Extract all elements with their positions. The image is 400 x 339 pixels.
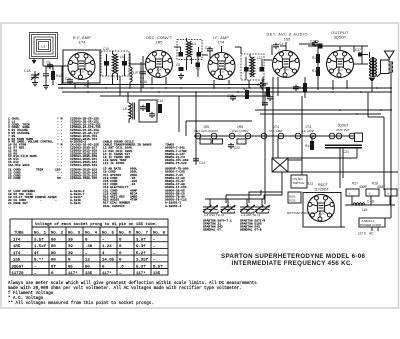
- svg-text:GENERAL GT-B: GENERAL GT-B: [240, 229, 262, 232]
- svg-text:1T4: 1T4: [13, 252, 21, 256]
- svg-text:No. 7: No. 7: [136, 232, 149, 236]
- svg-text:40MF: 40MF: [359, 185, 367, 189]
- svg-text:.38: .38: [85, 245, 93, 249]
- svg-text:80: 80: [51, 252, 56, 256]
- svg-text:A-18051-4: A-18051-4: [165, 205, 181, 208]
- svg-text:C25603-7600-766: C25603-7600-766: [70, 177, 97, 180]
- svg-text:made with 20,000 ohms per volt: made with 20,000 ohms per volt voltmeter…: [8, 286, 242, 291]
- svg-text:85: 85: [68, 265, 73, 269]
- svg-text:DET, AVC & AUDIO: DET, AVC & AUDIO: [267, 33, 308, 37]
- svg-text:3Q5GT: 3Q5GT: [12, 265, 25, 269]
- svg-text:L6: L6: [120, 55, 124, 59]
- svg-text:C5: C5: [65, 77, 69, 81]
- svg-text:R9: R9: [243, 87, 247, 91]
- svg-text:.6: .6: [119, 265, 124, 269]
- svg-text:1S5: 1S5: [13, 259, 21, 263]
- svg-text:135: 135: [85, 272, 93, 276]
- svg-text:I.F. AMP: I.F. AMP: [302, 129, 314, 133]
- svg-text:C15: C15: [227, 94, 233, 98]
- svg-text:No. 4: No. 4: [85, 232, 98, 236]
- svg-text:C25604-2605-163: C25604-2605-163: [70, 164, 97, 167]
- svg-text:90: 90: [85, 265, 90, 269]
- svg-text:INTERMEDIATE FREQUENCY 456 KC: INTERMEDIATE FREQUENCY 456 KC.: [232, 260, 353, 267]
- svg-text:14.05: 14.05: [102, 259, 115, 263]
- svg-text:117*: 117*: [68, 271, 78, 276]
- svg-text:L16: L16: [362, 208, 368, 212]
- svg-text:L7F3: L7F3: [133, 71, 140, 75]
- svg-text:f Filament Voltage: f Filament Voltage: [8, 291, 54, 296]
- svg-text:C3: C3: [279, 42, 283, 46]
- svg-text:117Z6GT: 117Z6GT: [314, 188, 330, 192]
- svg-text:1T4: 1T4: [13, 239, 21, 243]
- svg-text:1R5: 1R5: [156, 41, 163, 45]
- svg-text:L-2,ANT,TR.I-4: L-2,ANT,TR.I-4: [241, 213, 261, 217]
- svg-text:C17: C17: [355, 48, 361, 52]
- svg-text:Always use meter scale which w: Always use meter scale which will give g…: [8, 281, 257, 286]
- svg-text:C-16: C-16: [140, 80, 147, 84]
- svg-text:3Q5GT: 3Q5GT: [338, 124, 349, 128]
- svg-text:4f: 4f: [34, 251, 39, 256]
- svg-text:470M: 470M: [130, 199, 137, 202]
- svg-text:117Z6: 117Z6: [12, 272, 25, 276]
- svg-text:POWER CORD: POWER CORD: [360, 223, 382, 227]
- svg-text:No. 1: No. 1: [34, 232, 47, 236]
- svg-text:1T4: 1T4: [79, 41, 86, 45]
- svg-text:R.F. AMP: R.F. AMP: [270, 129, 283, 133]
- svg-text:R11: R11: [312, 56, 318, 60]
- svg-text:- -: - -: [57, 138, 63, 141]
- svg-text:1.5xf: 1.5xf: [34, 244, 47, 249]
- svg-text:1.24: 1.24: [102, 245, 112, 249]
- svg-text:Voltage of each socket prong t: Voltage of each socket prong to #1 pin o…: [35, 222, 157, 227]
- svg-text:13: 13: [85, 259, 90, 263]
- svg-text:AC: AC: [369, 232, 374, 236]
- svg-text:No. 2: No. 2: [51, 232, 64, 236]
- svg-text:1T4: 1T4: [218, 41, 225, 45]
- svg-text:5.3f: 5.3f: [136, 264, 146, 269]
- svg-text:OUTPUT: OUTPUT: [331, 31, 349, 35]
- svg-text:L4: L4: [193, 42, 197, 46]
- svg-text:96050-74-C23: 96050-74-C23: [165, 162, 187, 165]
- svg-text:117*: 117*: [136, 271, 146, 276]
- svg-text:- -: - -: [57, 164, 63, 167]
- svg-text:SPARTON SUPERHETERODYNE MODEL: SPARTON SUPERHETERODYNE MODEL 6-06: [221, 253, 366, 260]
- svg-text:80: 80: [51, 259, 56, 263]
- svg-text:117 V.: 117 V.: [358, 232, 367, 236]
- svg-text:R23: R23: [307, 182, 313, 186]
- svg-text:5M: 5M: [57, 177, 61, 180]
- svg-text:117*: 117*: [102, 271, 112, 276]
- svg-text:OSC-CONV: OSC-CONV: [232, 129, 250, 133]
- svg-text:C22: C22: [234, 146, 240, 150]
- svg-text:I.F. AMP: I.F. AMP: [213, 36, 230, 40]
- svg-text:** All voltages measured from: ** All voltages measured from this point…: [8, 301, 154, 306]
- svg-text:No. 3: No. 3: [68, 232, 81, 236]
- svg-text:C4 COND: C4 COND: [8, 177, 21, 180]
- svg-text:C13: C13: [205, 46, 211, 50]
- svg-text:OSC. CONV'T: OSC. CONV'T: [146, 36, 173, 40]
- svg-text:RECT: RECT: [318, 183, 329, 187]
- svg-text:8f: 8f: [51, 264, 56, 269]
- svg-text:+: +: [349, 192, 351, 196]
- svg-text:L1: L1: [41, 45, 45, 49]
- svg-text:80: 80: [51, 239, 56, 243]
- svg-text:1R5: 1R5: [13, 245, 21, 249]
- svg-text:39: 39: [68, 245, 73, 249]
- svg-text:9.3f: 9.3f: [136, 244, 146, 249]
- svg-text:39: 39: [68, 239, 73, 243]
- svg-text:TUBE: TUBE: [14, 232, 24, 236]
- svg-text:8.**: 8.**: [34, 258, 44, 263]
- svg-text:C10: C10: [103, 47, 109, 51]
- svg-text:C1A: C1A: [24, 69, 31, 73]
- svg-text:No. 5: No. 5: [102, 232, 115, 236]
- svg-text:C2: C2: [46, 61, 50, 65]
- svg-text:* A.C. Voltage: * A.C. Voltage: [8, 296, 44, 301]
- svg-text:No. 8: No. 8: [153, 232, 166, 236]
- svg-text:C4: C4: [257, 83, 261, 87]
- svg-text:40MF: 40MF: [377, 185, 385, 189]
- svg-text:L-4,OSC,TR.I-2: L-4,OSC,TR.I-2: [204, 213, 224, 217]
- svg-text:1S5: 1S5: [284, 38, 291, 42]
- svg-text:A-1841: A-1841: [70, 202, 81, 205]
- svg-text:R12: R12: [312, 69, 318, 73]
- svg-text:.01: .01: [130, 183, 136, 186]
- svg-text:DET AVC-AUDIO: DET AVC-AUDIO: [194, 129, 218, 133]
- svg-text:-: -: [55, 199, 57, 202]
- svg-text:C9: C9: [315, 40, 319, 44]
- svg-text:DIAL CHASSIS: DIAL CHASSIS: [103, 205, 125, 208]
- svg-text:C8: C8: [176, 63, 180, 67]
- svg-text:R.F. AMP: R.F. AMP: [73, 36, 91, 40]
- svg-text:3.5f: 3.5f: [34, 238, 44, 243]
- svg-text:21 KNOB SET: 21 KNOB SET: [8, 202, 28, 205]
- svg-text:39: 39: [68, 252, 73, 256]
- svg-text:TRIM: TRIM: [36, 169, 43, 172]
- svg-text:C14: C14: [157, 99, 163, 103]
- svg-text:80: 80: [51, 245, 56, 249]
- svg-text:GENERAL GT.: GENERAL GT.: [203, 229, 223, 232]
- svg-text:5.2f: 5.2f: [136, 251, 146, 256]
- svg-text:+: +: [369, 192, 371, 196]
- svg-text:6.5f: 6.5f: [153, 264, 163, 269]
- svg-text:C24: C24: [199, 161, 205, 165]
- svg-text:16A R13 GRID: 16A R13 GRID: [8, 164, 30, 167]
- svg-text:SWITCH: SWITCH: [293, 181, 305, 185]
- svg-text:No. 6: No. 6: [119, 232, 132, 236]
- svg-text:OUT PUT: OUT PUT: [336, 128, 350, 132]
- svg-text:3.9f: 3.9f: [136, 238, 146, 243]
- svg-text:L12 IF 456KC: L12 IF 456KC: [103, 162, 125, 165]
- svg-text:L5: L5: [123, 107, 127, 111]
- svg-text:1.35f: 1.35f: [136, 258, 149, 263]
- svg-text:POS: POS: [289, 199, 295, 203]
- svg-text:-: -: [40, 199, 42, 202]
- svg-text:R17: R17: [352, 182, 358, 186]
- svg-text:3Q5GT: 3Q5GT: [334, 36, 347, 40]
- svg-text:+: +: [387, 192, 389, 196]
- svg-text:135: 135: [153, 272, 161, 276]
- svg-text:R14: R14: [305, 144, 311, 148]
- svg-text:C21: C21: [343, 150, 349, 154]
